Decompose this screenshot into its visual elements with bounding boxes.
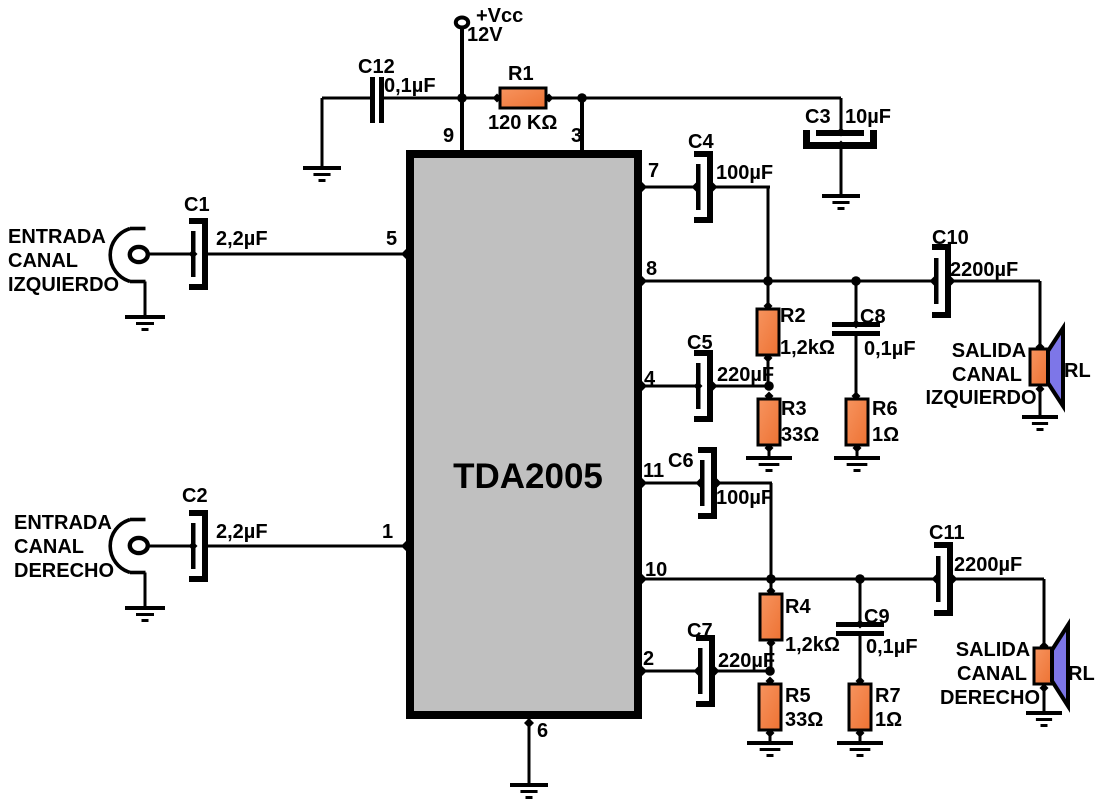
svg-text:DERECHO: DERECHO xyxy=(14,560,114,582)
svg-text:7: 7 xyxy=(648,160,659,182)
svg-text:6: 6 xyxy=(537,720,548,742)
svg-text:0,1µF: 0,1µF xyxy=(866,636,918,658)
svg-text:CANAL: CANAL xyxy=(8,250,78,272)
svg-text:C11: C11 xyxy=(929,522,965,544)
svg-text:R3: R3 xyxy=(781,398,807,420)
svg-text:C9: C9 xyxy=(864,606,890,628)
svg-text:C10: C10 xyxy=(932,227,969,249)
svg-text:R7: R7 xyxy=(875,685,901,707)
svg-text:220µF: 220µF xyxy=(718,650,775,672)
svg-text:SALIDA: SALIDA xyxy=(952,340,1026,362)
svg-text:100µF: 100µF xyxy=(716,162,773,184)
svg-text:2200µF: 2200µF xyxy=(950,259,1018,281)
svg-text:C3: C3 xyxy=(805,106,831,128)
svg-text:ENTRADA: ENTRADA xyxy=(8,226,106,248)
svg-text:R5: R5 xyxy=(785,685,811,707)
svg-text:CANAL: CANAL xyxy=(957,663,1027,685)
svg-text:CANAL: CANAL xyxy=(14,536,84,558)
svg-text:C6: C6 xyxy=(668,450,694,472)
svg-text:4: 4 xyxy=(644,368,656,390)
svg-text:2,2µF: 2,2µF xyxy=(216,228,268,250)
svg-text:C1: C1 xyxy=(184,194,210,216)
svg-text:1Ω: 1Ω xyxy=(872,424,899,446)
svg-text:1,2kΩ: 1,2kΩ xyxy=(785,634,840,656)
svg-text:CANAL: CANAL xyxy=(952,364,1022,386)
svg-text:SALIDA: SALIDA xyxy=(956,639,1030,661)
svg-text:RL: RL xyxy=(1068,663,1095,685)
svg-text:IZQUIERDO: IZQUIERDO xyxy=(925,387,1036,409)
svg-text:12V: 12V xyxy=(467,24,503,46)
svg-text:2200µF: 2200µF xyxy=(954,554,1022,576)
svg-text:R1: R1 xyxy=(508,63,534,85)
svg-text:DERECHO: DERECHO xyxy=(940,687,1040,709)
svg-text:8: 8 xyxy=(646,258,657,280)
svg-text:0,1µF: 0,1µF xyxy=(384,75,436,97)
svg-text:IZQUIERDO: IZQUIERDO xyxy=(8,274,119,296)
svg-text:RL: RL xyxy=(1064,360,1091,382)
svg-text:2,2µF: 2,2µF xyxy=(216,521,268,543)
svg-text:9: 9 xyxy=(443,125,454,147)
svg-text:120 KΩ: 120 KΩ xyxy=(488,112,557,134)
svg-text:1,2kΩ: 1,2kΩ xyxy=(780,337,835,359)
svg-text:33Ω: 33Ω xyxy=(785,709,823,731)
svg-text:R6: R6 xyxy=(872,398,898,420)
svg-text:R4: R4 xyxy=(785,596,811,618)
svg-text:C5: C5 xyxy=(687,332,713,354)
svg-text:C7: C7 xyxy=(687,620,713,642)
svg-text:1: 1 xyxy=(382,521,393,543)
svg-text:5: 5 xyxy=(386,228,397,250)
svg-text:10: 10 xyxy=(645,559,667,581)
svg-text:R2: R2 xyxy=(780,305,806,327)
svg-text:1Ω: 1Ω xyxy=(875,709,902,731)
svg-text:C2: C2 xyxy=(182,485,208,507)
svg-text:0,1µF: 0,1µF xyxy=(864,338,916,360)
svg-text:ENTRADA: ENTRADA xyxy=(14,512,112,534)
svg-text:220µF: 220µF xyxy=(717,364,774,386)
svg-text:3: 3 xyxy=(571,125,582,147)
svg-text:11: 11 xyxy=(643,460,664,482)
svg-text:33Ω: 33Ω xyxy=(781,424,819,446)
svg-text:10µF: 10µF xyxy=(845,106,891,128)
svg-text:TDA2005: TDA2005 xyxy=(453,457,603,496)
svg-text:C8: C8 xyxy=(860,306,886,328)
svg-text:2: 2 xyxy=(643,648,654,670)
svg-text:C4: C4 xyxy=(688,131,714,153)
svg-text:100µF: 100µF xyxy=(716,487,773,509)
